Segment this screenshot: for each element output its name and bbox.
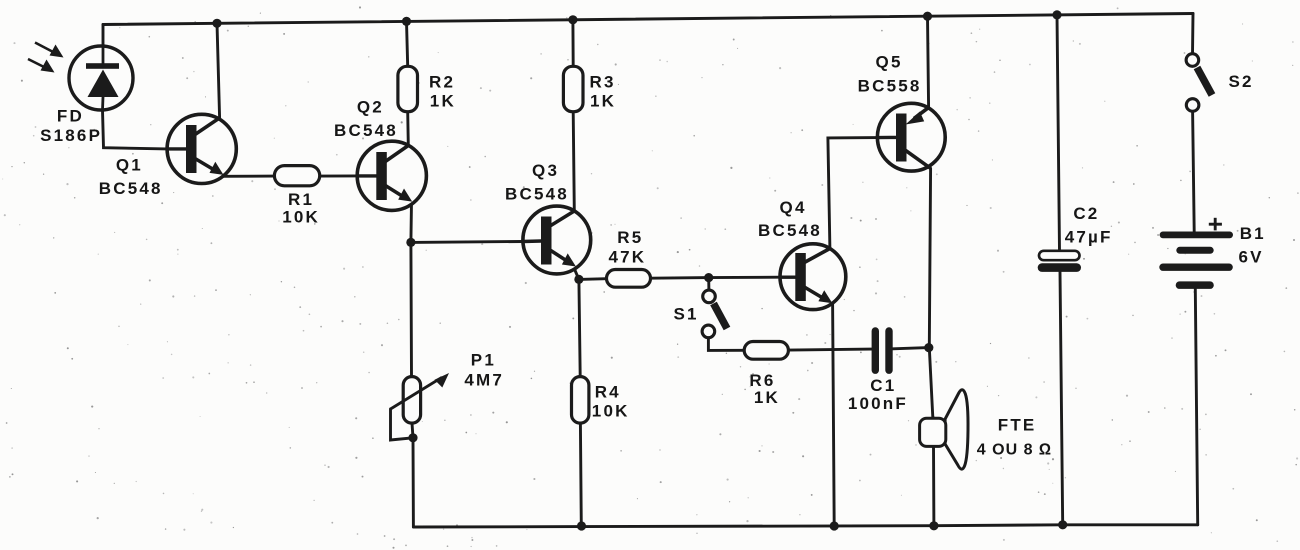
junction dot node C C1 right <box>924 343 933 352</box>
junction dot top rail R3 <box>568 15 577 24</box>
speaker FTE <box>920 390 968 469</box>
svg-text:6V: 6V <box>1239 247 1264 266</box>
switch S1 <box>702 290 727 338</box>
svg-text:R4: R4 <box>595 383 621 402</box>
wire R3 top to rail <box>571 20 574 67</box>
svg-text:10K: 10K <box>592 402 630 421</box>
wire S1 node down to S1 top contact <box>707 278 710 290</box>
svg-text:BC548: BC548 <box>99 179 163 198</box>
wire P1 bottom to bottom rail <box>412 423 413 527</box>
svg-text:C2: C2 <box>1073 204 1099 223</box>
svg-text:S186P: S186P <box>40 126 102 145</box>
svg-text:Q3: Q3 <box>532 161 559 180</box>
wire S1 bottom contact to R6 <box>708 338 744 350</box>
wire P1 wiper loop <box>391 409 414 440</box>
svg-text:FD: FD <box>57 107 84 126</box>
capacitor C2 (electrolytic) <box>1038 251 1081 272</box>
junction dot bottom rail C2 <box>1058 520 1067 529</box>
svg-text:P1: P1 <box>471 350 496 369</box>
svg-text:1K: 1K <box>590 92 616 111</box>
svg-text:1K: 1K <box>430 92 456 111</box>
battery B1 <box>1159 232 1233 289</box>
svg-text:47K: 47K <box>609 248 647 267</box>
svg-text:100nF: 100nF <box>848 394 908 413</box>
wire Q4 emitter down to bottom rail <box>833 303 835 526</box>
svg-text:B1: B1 <box>1240 224 1266 243</box>
light arrow 1 into photodiode <box>35 43 64 58</box>
svg-text:BC548: BC548 <box>505 185 569 204</box>
wire battery bottom to bottom rail <box>1195 289 1197 525</box>
wire Q3 emitter to node B <box>574 268 579 279</box>
svg-text:S2: S2 <box>1229 72 1254 91</box>
svg-text:BC548: BC548 <box>758 221 822 240</box>
wire R1 to Q2 base <box>320 174 358 177</box>
junction dot top rail R2 <box>402 17 411 26</box>
wire R2 top to rail <box>407 21 408 66</box>
junction dot P1 wiper <box>408 433 417 442</box>
resistor R1 <box>274 166 319 186</box>
transistor Q4 BC548 <box>780 244 846 310</box>
junction dot bottom rail R4 <box>577 521 586 530</box>
wire photodiode top to rail <box>102 25 105 47</box>
wire node A to Q3 base <box>411 240 523 244</box>
transistor Q2 BC548 <box>357 141 426 210</box>
svg-text:Q5: Q5 <box>876 53 903 72</box>
wire R4 bottom to bottom rail <box>579 423 583 526</box>
wire S2 bottom contact to battery <box>1193 111 1195 231</box>
svg-text:1K: 1K <box>754 388 780 407</box>
resistor R5 <box>607 270 651 288</box>
svg-text:Q4: Q4 <box>780 198 807 217</box>
wire node B to R5 <box>579 277 607 281</box>
switch S2 <box>1186 54 1212 112</box>
transistor Q1 BC548 <box>167 114 236 183</box>
resistor R3 <box>563 66 583 111</box>
wire bottom rail <box>413 525 1197 527</box>
svg-text:R1: R1 <box>288 190 314 209</box>
wire Q4 collector up to Q5 base <box>828 138 878 249</box>
photodiode FD S186P <box>69 46 133 110</box>
wire Q5 collector down through node C to speaker <box>929 168 933 417</box>
resistor R6 <box>744 342 788 360</box>
junction dot bottom rail speaker <box>929 521 938 530</box>
svg-text:Q2: Q2 <box>357 97 384 116</box>
svg-text:R3: R3 <box>590 73 616 92</box>
svg-text:47µF: 47µF <box>1065 228 1113 247</box>
resistor R2 <box>398 66 418 111</box>
wire C2 top to rail <box>1057 15 1060 251</box>
wire speaker to bottom rail <box>932 445 935 526</box>
junction dot S1 tap <box>704 273 713 282</box>
junction dot node A Q2 emitter <box>406 238 415 247</box>
svg-text:BC558: BC558 <box>858 77 922 96</box>
wire Q1 emitter to R1 <box>223 175 275 178</box>
svg-text:4M7: 4M7 <box>464 371 504 390</box>
wire node B down to R4 <box>579 279 580 376</box>
junction dot top rail Q5 emitter <box>923 12 932 21</box>
resistor R4 <box>572 377 589 424</box>
svg-text:S1: S1 <box>673 304 698 323</box>
wire C1 to node C <box>893 348 929 349</box>
junction dot node B Q3 emitter <box>574 275 583 284</box>
svg-text:4 OU 8 Ω: 4 OU 8 Ω <box>977 442 1052 459</box>
wire top rail <box>103 14 1193 25</box>
light arrow 2 into photodiode <box>28 59 55 73</box>
svg-text:C1: C1 <box>870 376 896 395</box>
svg-text:10K: 10K <box>282 208 320 227</box>
battery plus sign <box>1209 218 1222 231</box>
transistor Q5 BC558 (PNP) <box>877 103 945 171</box>
svg-text:Q1: Q1 <box>116 155 143 174</box>
potentiometer P1 <box>391 373 450 423</box>
wire R6 to C1 <box>788 349 871 350</box>
transistor Q3 BC548 <box>523 206 591 274</box>
wire photodiode bottom to Q1 base <box>103 110 168 149</box>
junction dot bottom rail Q4 emitter <box>830 521 839 530</box>
capacitor C1 <box>872 327 893 374</box>
wire R5 to S1 node to Q4 base <box>651 277 781 278</box>
svg-text:R2: R2 <box>429 73 455 92</box>
wire node A down to P1 <box>409 242 413 376</box>
wire Q5 emitter to top rail <box>928 16 929 107</box>
wire rail end down to S2 <box>1191 14 1194 55</box>
wire C2 bottom to rail <box>1060 272 1063 525</box>
svg-text:FTE: FTE <box>998 416 1037 435</box>
junction dot top rail C2 <box>1052 10 1061 19</box>
svg-text:R5: R5 <box>617 228 643 247</box>
svg-text:BC548: BC548 <box>334 121 398 140</box>
wire R2 bottom to Q2 collector <box>406 112 409 146</box>
wire Q2 emitter down to node A <box>409 202 413 243</box>
wire R3 bottom to Q3 collector <box>573 112 574 211</box>
junction dot top rail Q1 collector <box>212 19 221 28</box>
wire Q1 collector to top rail <box>217 23 220 118</box>
